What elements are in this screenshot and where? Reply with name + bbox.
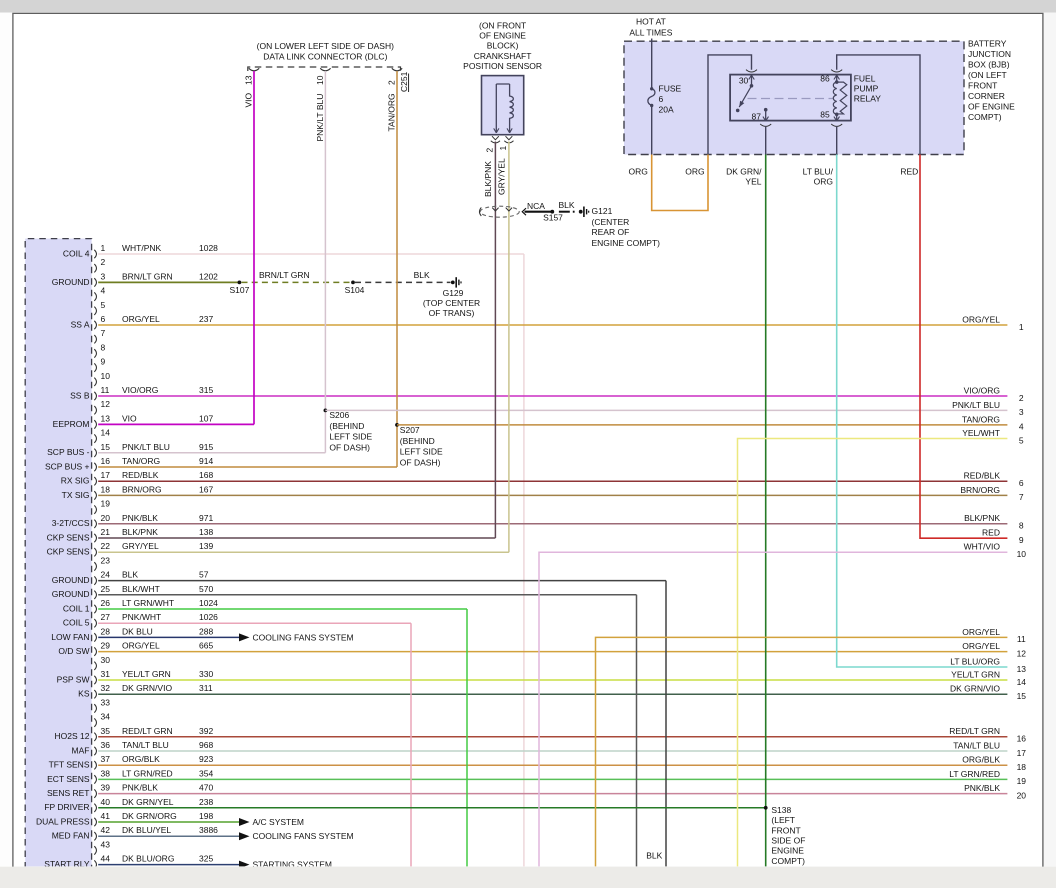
battery junction box (dashed)	[624, 41, 964, 154]
wire dark segment relay 87 to box edge	[765, 126, 767, 155]
svg-text:A/C SYSTEM: A/C SYSTEM	[253, 817, 304, 827]
top grey bar	[0, 0, 1056, 13]
svg-text:COIL 5: COIL 5	[63, 618, 90, 628]
svg-text:YEL/LT GRN: YEL/LT GRN	[951, 669, 1000, 679]
svg-text:TAN/LT BLU: TAN/LT BLU	[122, 740, 169, 750]
svg-text:FRONT: FRONT	[968, 81, 997, 91]
svg-text:YEL: YEL	[745, 177, 761, 187]
splice S104	[345, 281, 365, 296]
svg-text:40: 40	[101, 797, 111, 807]
svg-text:21: 21	[101, 527, 111, 537]
wire pin22 GRY/YEL 139 (to CKP sensor riser)	[98, 541, 509, 552]
svg-text:POSITION SENSOR: POSITION SENSOR	[463, 61, 542, 71]
svg-text:DATA LINK CONNECTOR (DLC): DATA LINK CONNECTOR (DLC)	[263, 52, 387, 62]
wire VIO riser from DLC pin13 down to pin13 row	[243, 71, 254, 424]
svg-text:330: 330	[199, 669, 213, 679]
svg-text:WHT/VIO: WHT/VIO	[964, 542, 1001, 552]
svg-text:(BEHIND: (BEHIND	[329, 421, 364, 431]
svg-text:RELAY: RELAY	[854, 94, 882, 104]
svg-text:VIO: VIO	[122, 413, 137, 423]
svg-text:1: 1	[101, 243, 106, 253]
svg-text:COIL 1: COIL 1	[63, 603, 90, 613]
svg-text:VIO/ORG: VIO/ORG	[122, 385, 158, 395]
svg-text:11: 11	[101, 385, 110, 395]
wire pin16 TAN/ORG 914 (to S207 riser)	[98, 456, 397, 467]
wire pin21 BLK/PNK 138 (to CKP sensor riser)	[98, 527, 495, 538]
svg-text:288: 288	[199, 626, 213, 636]
svg-text:4: 4	[1019, 422, 1024, 432]
svg-text:COOLING FANS SYSTEM: COOLING FANS SYSTEM	[253, 632, 354, 642]
CKP sensor caption	[463, 21, 542, 71]
svg-text:107: 107	[199, 413, 213, 423]
svg-text:RED/LT GRN: RED/LT GRN	[122, 726, 173, 736]
svg-text:17: 17	[101, 470, 111, 480]
wire pin25 BLK/WHT 570 (right then down)	[98, 584, 636, 867]
svg-text:OF DASH): OF DASH)	[400, 458, 441, 468]
svg-text:RED/BLK: RED/BLK	[964, 471, 1001, 481]
wire pin44 DK BLU/ORG 325 (arrow to STARTING SYSTEM)	[98, 854, 332, 870]
svg-text:10: 10	[1017, 549, 1027, 559]
svg-text:12: 12	[1017, 648, 1027, 658]
relay switch blade	[736, 86, 752, 112]
svg-text:914: 914	[199, 456, 213, 466]
wire pin42 DK BLU/YEL 3886 (arrow to COOLING FANS SYSTEM)	[98, 825, 353, 841]
svg-text:13: 13	[101, 413, 111, 423]
splice S206 (BEHIND LEFT SIDE OF DASH)	[324, 409, 373, 453]
svg-text:29: 29	[101, 641, 111, 651]
wire fuse output down (dark inside box)	[651, 106, 653, 155]
right edge connector exit labels 1-20	[949, 314, 1026, 800]
svg-text:TX SIG: TX SIG	[62, 490, 90, 500]
relay pin 86 terminal	[820, 70, 842, 84]
svg-text:15: 15	[1017, 691, 1027, 701]
svg-text:BLK: BLK	[646, 851, 662, 861]
svg-text:BRN/LT GRN: BRN/LT GRN	[259, 270, 310, 280]
svg-text:FRONT: FRONT	[771, 825, 800, 835]
wire pin13 VIO 107 (to DLC riser)	[98, 413, 254, 424]
svg-text:10: 10	[315, 75, 325, 85]
wire pin3 BRN/LT GRN 1202 to splice S107	[98, 271, 239, 282]
DLC connector dashed strip with pin sockets	[248, 67, 402, 71]
svg-text:ORG/YEL: ORG/YEL	[962, 314, 1000, 324]
svg-text:BRN/LT GRN: BRN/LT GRN	[122, 271, 173, 281]
svg-text:LT GRN/RED: LT GRN/RED	[122, 768, 173, 778]
right margin strip	[1044, 13, 1056, 867]
svg-text:COOLING FANS SYSTEM: COOLING FANS SYSTEM	[253, 831, 354, 841]
svg-text:HOT AT: HOT AT	[636, 17, 666, 27]
svg-text:ENGINE: ENGINE	[771, 846, 804, 856]
svg-text:PNK/LT BLU: PNK/LT BLU	[122, 442, 170, 452]
svg-text:33: 33	[101, 697, 111, 707]
svg-text:KS: KS	[78, 689, 90, 699]
svg-text:30: 30	[101, 655, 111, 665]
DLC pin 10 label (rotated)	[315, 75, 325, 85]
svg-text:3: 3	[1019, 407, 1024, 417]
svg-text:37: 37	[101, 754, 111, 764]
svg-text:DUAL PRESS: DUAL PRESS	[36, 816, 90, 826]
PCM connector C175 (left, dashed lavender box)	[25, 239, 91, 880]
wire pin40 DK GRN/YEL 238 (to S138)	[98, 797, 766, 808]
svg-text:BLK/PNK: BLK/PNK	[122, 527, 158, 537]
svg-text:BLK/PNK: BLK/PNK	[964, 513, 1000, 523]
svg-text:23: 23	[101, 555, 111, 565]
svg-text:OF TRANS): OF TRANS)	[429, 308, 475, 318]
svg-text:570: 570	[199, 584, 213, 594]
svg-text:EEPROM: EEPROM	[53, 419, 90, 429]
svg-text:14: 14	[1017, 677, 1027, 687]
svg-text:6: 6	[1019, 478, 1024, 488]
svg-text:GROUND: GROUND	[52, 589, 90, 599]
svg-text:20: 20	[101, 513, 111, 523]
bottom grey strip	[0, 867, 1056, 888]
svg-text:ORG: ORG	[629, 166, 648, 176]
svg-text:665: 665	[199, 641, 213, 651]
svg-text:5: 5	[101, 300, 106, 310]
svg-text:30: 30	[739, 75, 749, 85]
svg-text:(ON FRONT: (ON FRONT	[479, 21, 526, 31]
svg-text:PNK/BLK: PNK/BLK	[122, 513, 158, 523]
svg-text:TAN/ORG: TAN/ORG	[962, 414, 1000, 424]
svg-text:BOX (BJB): BOX (BJB)	[968, 60, 1010, 70]
svg-text:27: 27	[101, 612, 111, 622]
svg-text:RED/BLK: RED/BLK	[122, 470, 159, 480]
svg-text:42: 42	[101, 825, 111, 835]
svg-text:ORG: ORG	[685, 166, 704, 176]
svg-text:167: 167	[199, 484, 213, 494]
svg-text:BLK/PNK: BLK/PNK	[483, 161, 493, 197]
svg-text:GRY/YEL: GRY/YEL	[122, 541, 159, 551]
svg-text:43: 43	[101, 839, 111, 849]
wire BLK/PNK riser from CKP pin2 down to pin21 row	[483, 142, 496, 539]
svg-text:18: 18	[1017, 762, 1027, 772]
splice S138 (LEFT FRONT SIDE OF ENGINE COMPT)	[764, 805, 806, 866]
svg-text:38: 38	[101, 768, 111, 778]
svg-text:CKP SENS: CKP SENS	[47, 547, 90, 557]
svg-text:MAF: MAF	[72, 745, 90, 755]
wire pin27 PNK/WHT 1026 (right then down)	[98, 612, 411, 867]
svg-text:O/D SW: O/D SW	[58, 646, 89, 656]
relay mechanical link (dashed)	[748, 98, 834, 100]
svg-text:OF DASH): OF DASH)	[329, 443, 370, 453]
svg-text:LEFT SIDE: LEFT SIDE	[400, 447, 443, 457]
svg-text:FP DRIVER: FP DRIVER	[44, 802, 89, 812]
left margin strip	[0, 13, 12, 867]
svg-text:DK BLU/ORG: DK BLU/ORG	[122, 854, 174, 864]
svg-text:14: 14	[101, 428, 111, 438]
fuel pump relay box	[730, 75, 851, 121]
wire NCA from connector to S157	[525, 201, 552, 212]
svg-text:DK BLU: DK BLU	[122, 626, 153, 636]
svg-text:20A: 20A	[659, 104, 674, 114]
wire pin20 PNK/BLK 971 (full width to right edge)	[98, 513, 1007, 524]
svg-text:19: 19	[1017, 776, 1027, 786]
PCM left signal-name labels	[36, 248, 90, 869]
svg-text:CRANKSHAFT: CRANKSHAFT	[474, 51, 532, 61]
svg-text:26: 26	[101, 598, 111, 608]
svg-text:ALL TIMES: ALL TIMES	[629, 28, 672, 38]
svg-text:DK GRN/YEL: DK GRN/YEL	[122, 797, 174, 807]
svg-text:OF ENGINE: OF ENGINE	[968, 102, 1015, 112]
svg-text:PUMP: PUMP	[854, 84, 879, 94]
svg-text:S104: S104	[345, 285, 365, 295]
wire pin32 DK GRN/VIO 311 (full width to right edge)	[98, 683, 1007, 694]
relay pin 87 terminal	[752, 108, 772, 127]
svg-text:392: 392	[199, 726, 213, 736]
svg-text:GROUND: GROUND	[52, 277, 90, 287]
wire dark riser + staple from x=708 to relay pin30	[708, 55, 752, 155]
svg-text:57: 57	[199, 570, 209, 580]
svg-text:10: 10	[101, 371, 111, 381]
svg-text:971: 971	[199, 513, 213, 523]
svg-text:1: 1	[498, 146, 508, 151]
relay pin 30 terminal	[739, 70, 757, 88]
wire BRN/LT GRN dashed S107 to S104	[242, 270, 352, 282]
svg-text:13: 13	[1017, 664, 1027, 674]
svg-text:G129: G129	[443, 288, 464, 298]
PCM pin sockets and pin numbers 1-44	[94, 243, 110, 869]
CKP pin number 1 (rotated)	[498, 146, 508, 151]
relay coil	[833, 82, 836, 114]
svg-text:TAN/ORG: TAN/ORG	[386, 93, 396, 131]
svg-text:REAR OF: REAR OF	[592, 227, 630, 237]
splice S207 (BEHIND LEFT SIDE OF DASH)	[395, 423, 443, 468]
svg-text:315: 315	[199, 385, 213, 395]
svg-text:SENS RET: SENS RET	[47, 788, 90, 798]
wire pin24 BLK 57 (right then down)	[98, 570, 666, 867]
svg-text:6: 6	[659, 94, 664, 104]
svg-text:PNK/LT BLU: PNK/LT BLU	[952, 400, 1000, 410]
svg-text:2: 2	[485, 148, 495, 153]
svg-text:S157: S157	[543, 212, 563, 222]
svg-text:MED FAN: MED FAN	[52, 831, 90, 841]
svg-text:ORG: ORG	[814, 177, 833, 187]
svg-text:TFT SENS: TFT SENS	[49, 760, 90, 770]
svg-text:32: 32	[101, 683, 111, 693]
wire pin11 VIO/ORG 315 (full width to right edge)	[98, 385, 1007, 396]
wire pin38 LT GRN/RED 354 (full width to right edge)	[98, 768, 1007, 779]
svg-text:87: 87	[752, 112, 762, 122]
svg-text:22: 22	[101, 541, 111, 551]
svg-text:12: 12	[101, 399, 111, 409]
BJB caption	[968, 39, 1015, 123]
crankshaft position sensor box	[482, 76, 524, 135]
svg-text:SS A: SS A	[71, 319, 90, 329]
svg-text:86: 86	[820, 73, 830, 83]
svg-text:41: 41	[101, 811, 111, 821]
ground G129 (TOP CENTER OF TRANS)	[423, 277, 480, 318]
svg-text:RED/LT GRN: RED/LT GRN	[949, 726, 1000, 736]
svg-text:3886: 3886	[199, 825, 218, 835]
svg-text:DK GRN/ORG: DK GRN/ORG	[122, 811, 177, 821]
svg-text:237: 237	[199, 314, 213, 324]
splice S157	[543, 210, 563, 223]
svg-text:BRN/ORG: BRN/ORG	[960, 485, 1000, 495]
svg-text:85: 85	[820, 109, 830, 119]
svg-text:PSP SW: PSP SW	[57, 674, 90, 684]
svg-text:CKP SENS: CKP SENS	[47, 532, 90, 542]
wire LT BLU/ORG drop from relay 85 to exit 13	[837, 155, 1008, 668]
svg-text:PNK/BLK: PNK/BLK	[964, 783, 1000, 793]
wire feed into fuse (dark, inside box)	[651, 39, 653, 89]
svg-text:FUSE: FUSE	[659, 84, 682, 94]
svg-text:ORG/YEL: ORG/YEL	[122, 641, 160, 651]
svg-text:YEL/LT GRN: YEL/LT GRN	[122, 669, 171, 679]
svg-text:915: 915	[199, 442, 213, 452]
wire pin17 RED/BLK 168 (full width to right edge)	[98, 470, 1007, 481]
wire pin29 ORG/YEL 665 (full width to right edge)	[98, 641, 1007, 652]
svg-text:9: 9	[101, 357, 106, 367]
svg-text:1: 1	[1019, 322, 1024, 332]
svg-text:VIO: VIO	[243, 92, 253, 107]
svg-text:DK GRN/: DK GRN/	[726, 166, 762, 176]
wire pin6 ORG/YEL 237 (full width to right edge)	[98, 314, 1007, 325]
svg-text:LT BLU/ORG: LT BLU/ORG	[950, 656, 1000, 666]
svg-text:TAN/ORG: TAN/ORG	[122, 456, 160, 466]
wire WHT/VIO riser (from bottom) to exit 10	[539, 552, 1007, 867]
svg-text:ORG/BLK: ORG/BLK	[962, 755, 1000, 765]
svg-text:SCP BUS -: SCP BUS -	[47, 447, 90, 457]
svg-text:GRY/YEL: GRY/YEL	[496, 158, 506, 195]
svg-text:ORG/YEL: ORG/YEL	[962, 627, 1000, 637]
svg-text:(TOP CENTER: (TOP CENTER	[423, 298, 480, 308]
svg-text:BATTERY: BATTERY	[968, 39, 1007, 49]
svg-text:(CENTER: (CENTER	[592, 217, 630, 227]
svg-text:1028: 1028	[199, 243, 218, 253]
wire pin31 YEL/LT GRN 330 (full width to right edge)	[98, 669, 1007, 680]
svg-text:ORG/YEL: ORG/YEL	[122, 314, 160, 324]
wire pin18 BRN/ORG 167 (full width to right edge)	[98, 484, 1007, 495]
DLC caption	[257, 41, 394, 62]
wire pin37 ORG/BLK 923 (full width to right edge)	[98, 754, 1007, 765]
svg-text:S206: S206	[329, 410, 349, 420]
svg-text:31: 31	[101, 669, 111, 679]
svg-text:16: 16	[1017, 734, 1027, 744]
wire TAN/ORG riser from DLC pin2 down through S207 to pin16 row	[386, 71, 397, 467]
splice S107	[229, 281, 249, 296]
svg-text:HO2S 12: HO2S 12	[55, 731, 90, 741]
svg-text:PNK/WHT: PNK/WHT	[122, 612, 161, 622]
svg-text:BLK/WHT: BLK/WHT	[122, 584, 160, 594]
svg-text:7: 7	[1019, 492, 1024, 502]
wire pin15 PNK/LT BLU 915 (to S206 riser)	[98, 442, 325, 453]
svg-text:BLOCK): BLOCK)	[487, 41, 519, 51]
svg-text:CORNER: CORNER	[968, 91, 1005, 101]
svg-text:16: 16	[101, 456, 111, 466]
wire DK GRN/YEL drop from relay 87 to bottom (through S138)	[765, 155, 767, 868]
svg-text:SCP BUS +: SCP BUS +	[45, 461, 90, 471]
svg-text:LEFT SIDE: LEFT SIDE	[329, 432, 372, 442]
svg-text:168: 168	[199, 470, 213, 480]
svg-text:34: 34	[101, 712, 111, 722]
fuse 6 20A	[648, 84, 682, 115]
relay pin 85 terminal	[820, 109, 842, 126]
svg-text:1026: 1026	[199, 612, 218, 622]
svg-text:3-2T/CCS: 3-2T/CCS	[52, 518, 90, 528]
wire GRY/YEL riser from CKP pin1 down to pin22 row	[496, 142, 509, 553]
svg-text:3: 3	[101, 271, 106, 281]
svg-text:FUEL: FUEL	[854, 74, 876, 84]
svg-text:BLK: BLK	[558, 200, 574, 210]
svg-text:RX SIG: RX SIG	[61, 476, 90, 486]
wire pin36 TAN/LT BLU 968 (full width to right edge)	[98, 740, 1007, 751]
svg-text:C251: C251	[399, 71, 409, 92]
svg-text:LT GRN/WHT: LT GRN/WHT	[122, 598, 174, 608]
svg-text:18: 18	[101, 484, 111, 494]
svg-text:198: 198	[199, 811, 213, 821]
svg-text:8: 8	[1019, 521, 1024, 531]
svg-text:5: 5	[1019, 435, 1024, 445]
svg-text:138: 138	[199, 527, 213, 537]
svg-text:RED: RED	[982, 528, 1000, 538]
svg-text:44: 44	[101, 854, 111, 864]
svg-text:SS B: SS B	[70, 390, 90, 400]
svg-text:S207: S207	[400, 425, 420, 435]
svg-text:1202: 1202	[199, 271, 218, 281]
svg-text:25: 25	[101, 584, 111, 594]
svg-text:G121: G121	[592, 206, 613, 216]
svg-text:VIO/ORG: VIO/ORG	[964, 385, 1000, 395]
wire pin35 RED/LT GRN 392 (full width to right edge)	[98, 726, 1007, 737]
svg-text:DK BLU/YEL: DK BLU/YEL	[122, 825, 171, 835]
svg-text:LT BLU/: LT BLU/	[803, 166, 834, 176]
svg-text:RED: RED	[900, 166, 918, 176]
svg-text:2: 2	[101, 257, 106, 267]
relay caption	[854, 74, 882, 104]
wire YEL/WHT riser (from bottom) to exit 5	[738, 439, 1008, 868]
svg-text:6: 6	[101, 314, 106, 324]
svg-text:ORG/YEL: ORG/YEL	[962, 641, 1000, 651]
relay coil parallel resistor	[837, 82, 847, 114]
svg-text:ORG/BLK: ORG/BLK	[122, 754, 160, 764]
svg-text:NCA: NCA	[527, 201, 545, 211]
svg-text:PNK/LT BLU: PNK/LT BLU	[315, 94, 325, 142]
svg-text:S138: S138	[771, 805, 791, 815]
svg-text:17: 17	[1017, 748, 1027, 758]
svg-text:OF ENGINE: OF ENGINE	[479, 31, 526, 41]
svg-text:JUNCTION: JUNCTION	[968, 49, 1011, 59]
svg-text:238: 238	[199, 797, 213, 807]
svg-text:968: 968	[199, 740, 213, 750]
svg-text:S107: S107	[229, 285, 249, 295]
svg-text:DK GRN/VIO: DK GRN/VIO	[950, 684, 1000, 694]
wire pin28 DK BLU 288 (arrow to COOLING FANS SYSTEM)	[98, 626, 353, 642]
wire pin41 DK GRN/ORG 198 (arrow to A/C SYSTEM)	[98, 811, 304, 827]
svg-text:WHT/PNK: WHT/PNK	[122, 243, 162, 253]
svg-text:354: 354	[199, 768, 213, 778]
svg-text:DK GRN/VIO: DK GRN/VIO	[122, 683, 172, 693]
svg-text:139: 139	[199, 541, 213, 551]
wire pin39 PNK/BLK 470 (full width to right edge)	[98, 783, 1007, 794]
svg-text:2: 2	[1019, 393, 1024, 403]
svg-text:1024: 1024	[199, 598, 218, 608]
svg-text:311: 311	[199, 683, 213, 693]
wire pin26 LT GRN/WHT 1024 (right then down)	[98, 598, 467, 867]
svg-text:470: 470	[199, 783, 213, 793]
svg-text:28: 28	[101, 626, 111, 636]
svg-text:BLK: BLK	[122, 570, 138, 580]
svg-text:GROUND: GROUND	[52, 575, 90, 585]
svg-text:(BEHIND: (BEHIND	[400, 436, 435, 446]
svg-text:ECT SENS: ECT SENS	[47, 774, 90, 784]
svg-text:15: 15	[101, 442, 111, 452]
DLC pin 2 label (rotated)	[386, 80, 396, 85]
HOT AT ALL TIMES feed label	[629, 17, 672, 38]
svg-text:YEL/WHT: YEL/WHT	[962, 428, 1000, 438]
svg-text:325: 325	[199, 854, 213, 864]
svg-text:36: 36	[101, 740, 111, 750]
wire BLK dashed S104 to G129	[355, 270, 451, 282]
svg-text:BLK: BLK	[414, 270, 430, 280]
